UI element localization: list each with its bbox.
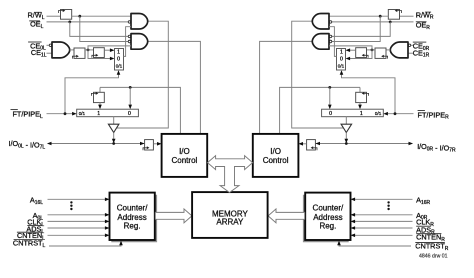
overline CNTRSTL (14, 239, 43, 241)
arrowhead read into mux0 L (128, 105, 132, 110)
wire gate2 out to IO control L (148, 41, 201, 133)
inverter bubble CE gate input L (49, 44, 52, 47)
svg-text:0/1: 0/1 (116, 64, 123, 69)
arrowhead CE latched into mux L (110, 48, 115, 52)
overline CE0R (413, 41, 427, 43)
wire IO bus R (316, 143, 409, 145)
wire read data line L (99, 87, 101, 92)
arrowhead ADS into counter R (351, 226, 356, 230)
I/O Control box L (162, 134, 208, 177)
svg-text:1: 1 (97, 111, 100, 117)
svg-text:1: 1 (117, 49, 120, 55)
latch R/W latch R (388, 9, 401, 19)
latch CE latch 2 L (92, 48, 104, 58)
counter box shadow R (304, 195, 349, 242)
wire CLK wire R (354, 220, 412, 222)
wire CE latch1 out R (367, 49, 376, 51)
svg-text:Counter/: Counter/ (117, 204, 148, 213)
latch R/W latch L (58, 9, 71, 19)
overline W of R/WL (35, 11, 41, 13)
wire read data to IO R (280, 87, 360, 133)
wire read data to IO L (100, 87, 180, 133)
wire CE latch2 out L (104, 49, 110, 51)
arrowhead into IO control L (157, 142, 162, 146)
wire latch out to gate1 L (72, 15, 131, 17)
wire CE gate out R (386, 49, 390, 51)
latch pipeline latch L (91, 92, 104, 103)
svg-text:0: 0 (329, 111, 332, 117)
svg-text:0: 0 (117, 57, 120, 63)
output mux R (322, 109, 384, 117)
wire OE wire R (332, 21, 414, 23)
wire A0 wire R (354, 214, 412, 216)
wire CE1 wire R (408, 52, 414, 54)
inverter bubble gate2 input A L (128, 35, 131, 38)
arrowhead CNTEN into counter R (351, 234, 356, 238)
wire output mux to buffer R (345, 117, 347, 125)
wire latch out to gate1 R (329, 15, 388, 17)
junction IO bus junction L (112, 142, 115, 145)
output buffer R (341, 124, 352, 132)
arrowhead CE mux select R (340, 70, 344, 75)
wire ADS wire L (48, 227, 106, 229)
svg-text:ARRAY: ARRAY (216, 218, 244, 227)
wire CE0 wire R (411, 44, 413, 46)
output mux L (77, 109, 139, 117)
wire IO bus L (52, 143, 145, 145)
AND gate G3R chip enable (390, 42, 408, 58)
wire OE to gate2 riser L (70, 22, 129, 37)
wire CE bypass to mux0 L (88, 50, 110, 59)
overline OER (416, 21, 427, 23)
arrowhead ADS into counter L (105, 226, 110, 230)
overline OEL (29, 20, 40, 22)
junction FT/PIPE branch R (394, 112, 397, 115)
wire read to mux0 R (329, 87, 331, 104)
svg-text:0/1: 0/1 (338, 64, 345, 69)
arrowhead IO into latch R (315, 142, 320, 146)
svg-text:1: 1 (360, 111, 363, 117)
svg-text:Reg.: Reg. (124, 221, 141, 230)
junction OE branch R (389, 21, 392, 24)
wire OE wire L (47, 21, 129, 23)
wire input latch out L (153, 143, 157, 145)
wire output mux to buffer L (113, 117, 115, 125)
arrowhead IO bus to pins L (47, 142, 52, 146)
CE mux L (115, 49, 124, 71)
latch CE latch 1 L (72, 48, 85, 59)
svg-text:I/O: I/O (179, 147, 190, 156)
arrowhead into IO control R (298, 142, 303, 146)
arrowhead A16 into counter R (351, 198, 356, 202)
arrowhead buffer onto IO bus R (345, 139, 349, 144)
svg-text:I/O: I/O (270, 147, 281, 156)
arrowhead A16 into counter L (105, 198, 110, 202)
junction R/W branch R (379, 15, 382, 18)
wire A16 wire R (354, 198, 412, 200)
overline ADSL (27, 224, 42, 226)
junction CE branch L (87, 49, 90, 52)
arrowhead latched into mux1 R (358, 105, 362, 110)
wire A0 wire L (48, 214, 106, 216)
arrowhead CNTEN into counter L (105, 234, 110, 238)
svg-text:Control: Control (263, 156, 289, 165)
arrowhead CE mux select L (117, 70, 121, 75)
wire CNTRST wire L (49, 244, 121, 246)
wire R/W to gate2 riser R (332, 16, 381, 41)
svg-text:1: 1 (340, 49, 343, 55)
arrowhead IO bus to pins R (409, 142, 414, 146)
wire CNTEN wire L (48, 234, 106, 236)
arrowhead CNTRST into counter R (337, 241, 341, 246)
svg-text:Reg.: Reg. (319, 221, 336, 230)
arrowhead CLK into counter R (351, 220, 356, 224)
arrowhead CE latched into mux R (346, 48, 351, 52)
wire CE to gate2 R (329, 46, 372, 50)
wire ADS wire R (354, 227, 412, 229)
junction R/W branch L (78, 15, 81, 18)
wire R/W label to latch L (47, 15, 61, 17)
wire FT/PIPE wire R (388, 113, 414, 115)
junction read branch L (129, 86, 132, 89)
CE mux R (337, 49, 346, 71)
bus arrow counter to memory R (268, 209, 305, 223)
overline CNTRSTR (415, 242, 445, 244)
wire pipeline latch out R (359, 103, 361, 105)
overline ADSR (416, 225, 431, 227)
wire OE to gate2 riser R (332, 22, 391, 37)
wire CE gate out L (70, 49, 74, 51)
wire input latch out R (303, 143, 307, 145)
AND gate G3L chip enable (52, 42, 70, 58)
arrowhead CNTRST into counter L (119, 241, 123, 246)
wire gate2 out to IO control R (260, 41, 313, 133)
wire CE latch1 out L (85, 49, 94, 51)
arrowhead FT/PIPE into mux R (383, 112, 388, 116)
AND gate G1R read enable (312, 14, 329, 30)
svg-text:CNTRSTR: CNTRSTR (415, 242, 449, 252)
latch CE latch 1 R (375, 48, 388, 59)
wire FT/PIPE wire L (47, 113, 73, 115)
wire CE bypass to mux0 R (350, 50, 372, 59)
arrowhead read into mux0 R (328, 105, 332, 110)
svg-text:0/1: 0/1 (375, 111, 382, 116)
svg-text:FT/PIPEL: FT/PIPEL (12, 109, 43, 119)
svg-text:FT/PIPER: FT/PIPER (418, 110, 450, 120)
inverter bubble CE gate input R (408, 44, 411, 47)
overline CNTENR (416, 233, 441, 235)
svg-text:CNTRSTL: CNTRSTL (13, 239, 46, 249)
latch input latch R (307, 140, 317, 151)
arrowhead latched into mux1 L (98, 105, 102, 110)
junction FT/PIPE branch L (64, 112, 67, 115)
Counter/Address Reg box R (305, 193, 350, 240)
wire R/W to gate2 riser L (80, 16, 129, 41)
overline CNTENL (17, 231, 42, 233)
wire gate1 out / buffer enable R (292, 21, 343, 128)
wire CE mux select L (65, 74, 119, 114)
bus arrow IO controls and memory (T shape) (208, 156, 253, 193)
address ellipsis R (387, 201, 389, 210)
wire R/W label to latch R (400, 15, 414, 17)
arrowhead A0 into counter R (351, 213, 356, 217)
overline W of R/WR (425, 11, 431, 13)
wire buffer out L (113, 133, 115, 140)
arrowhead buffer onto IO bus L (112, 139, 116, 144)
MEMORY ARRAY box (192, 192, 268, 238)
AND gate G1L read enable (131, 14, 148, 30)
overline CE0L (28, 41, 41, 43)
arrowhead CE bypass into mux L (110, 57, 115, 61)
address ellipsis L (70, 201, 72, 210)
output buffer L (108, 124, 119, 132)
svg-text:0: 0 (128, 111, 131, 117)
svg-text:Control: Control (172, 156, 198, 165)
wire CE0 wire L (47, 44, 49, 46)
junction read branch R (328, 86, 331, 89)
arrowhead FT/PIPE into mux L (72, 112, 77, 116)
latch CE latch 2 R (356, 48, 368, 58)
junction OE branch L (68, 21, 71, 24)
inverter bubble gate2 input B R (329, 40, 332, 43)
inverter bubble gate1 OE input L (128, 21, 131, 24)
junction IO bus junction R (345, 142, 348, 145)
wire CLK wire L (48, 220, 106, 222)
svg-text:Counter/: Counter/ (313, 204, 344, 213)
wire pipeline latch out L (99, 103, 101, 105)
counter box shadow L (111, 195, 156, 242)
wire CE mux out to gate1 R (329, 27, 337, 57)
wire CE mux select R (342, 74, 396, 114)
AND gate G2L write enable (131, 34, 148, 50)
wire read data line R (359, 87, 361, 92)
wire CE1 wire L (47, 52, 53, 54)
inverter bubble gate1 OE input R (329, 21, 332, 24)
wire gate1 out / buffer enable L (117, 21, 168, 128)
bus arrow counter to memory L (155, 209, 192, 223)
svg-text:0/1: 0/1 (79, 111, 86, 116)
svg-text:0: 0 (340, 57, 343, 63)
svg-text:4846 drw 01: 4846 drw 01 (419, 254, 448, 260)
arrowhead CE bypass into mux R (346, 57, 351, 61)
wire CE latch2 out R (350, 49, 356, 51)
wire CNTRST wire R (339, 244, 411, 246)
I/O Control box R (253, 134, 299, 177)
AND gate G2R write enable (312, 34, 329, 50)
overline FT of FT/PIPER (418, 110, 425, 112)
wire CNTEN wire R (354, 234, 412, 236)
latch input latch L (143, 140, 153, 151)
arrowhead IO into latch L (140, 142, 145, 146)
inverter bubble gate2 input A R (329, 35, 332, 38)
wire buffer out R (345, 133, 347, 140)
inverter bubble gate2 input B L (128, 40, 131, 43)
overline FT of FT/PIPEL (11, 109, 18, 111)
arrowhead A0 into counter L (105, 213, 110, 217)
latch pipeline latch R (356, 92, 369, 103)
wire read to mux0 L (129, 87, 131, 104)
wire A16 wire L (48, 198, 106, 200)
junction CE branch R (371, 49, 374, 52)
wire CE to gate2 L (88, 46, 131, 50)
wire CE mux out to gate1 L (124, 27, 132, 57)
Counter/Address Reg box L (110, 193, 155, 240)
arrowhead CLK into counter L (105, 220, 110, 224)
